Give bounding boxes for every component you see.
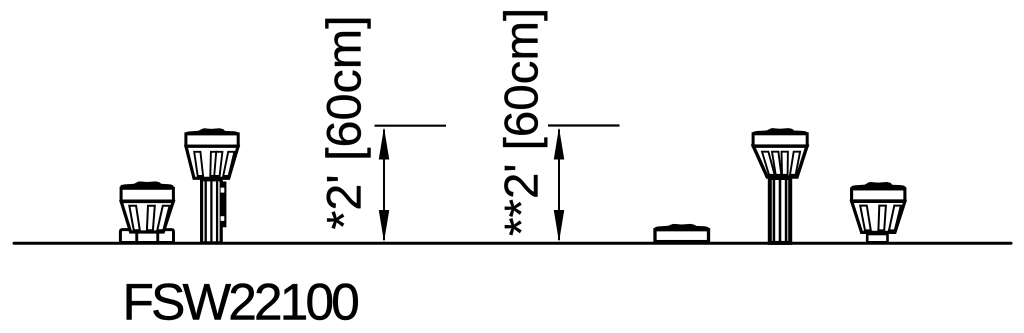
- tall pod B (left mushroom on trunk): [185, 128, 239, 243]
- dimension tick line 2: [548, 124, 620, 126]
- dimension label *2' [60cm] (rotated): [325, 19, 370, 229]
- tall pod D (right mushroom on trunk): [752, 128, 808, 243]
- model number FSW22100: [127, 284, 358, 320]
- side plate on trunk of pod B: [221, 182, 227, 228]
- dimension arrow 2: [554, 128, 565, 243]
- ground dome pod C: [654, 224, 709, 242]
- dimension tick line 1: [375, 125, 447, 127]
- dimension arrow 1: [379, 128, 390, 243]
- step pod E (right short mushroom seat): [851, 182, 906, 242]
- ground line: [14, 242, 1011, 245]
- step pod A (left short mushroom seat): [120, 181, 174, 242]
- dimension label **2' [60cm] (rotated): [503, 11, 547, 235]
